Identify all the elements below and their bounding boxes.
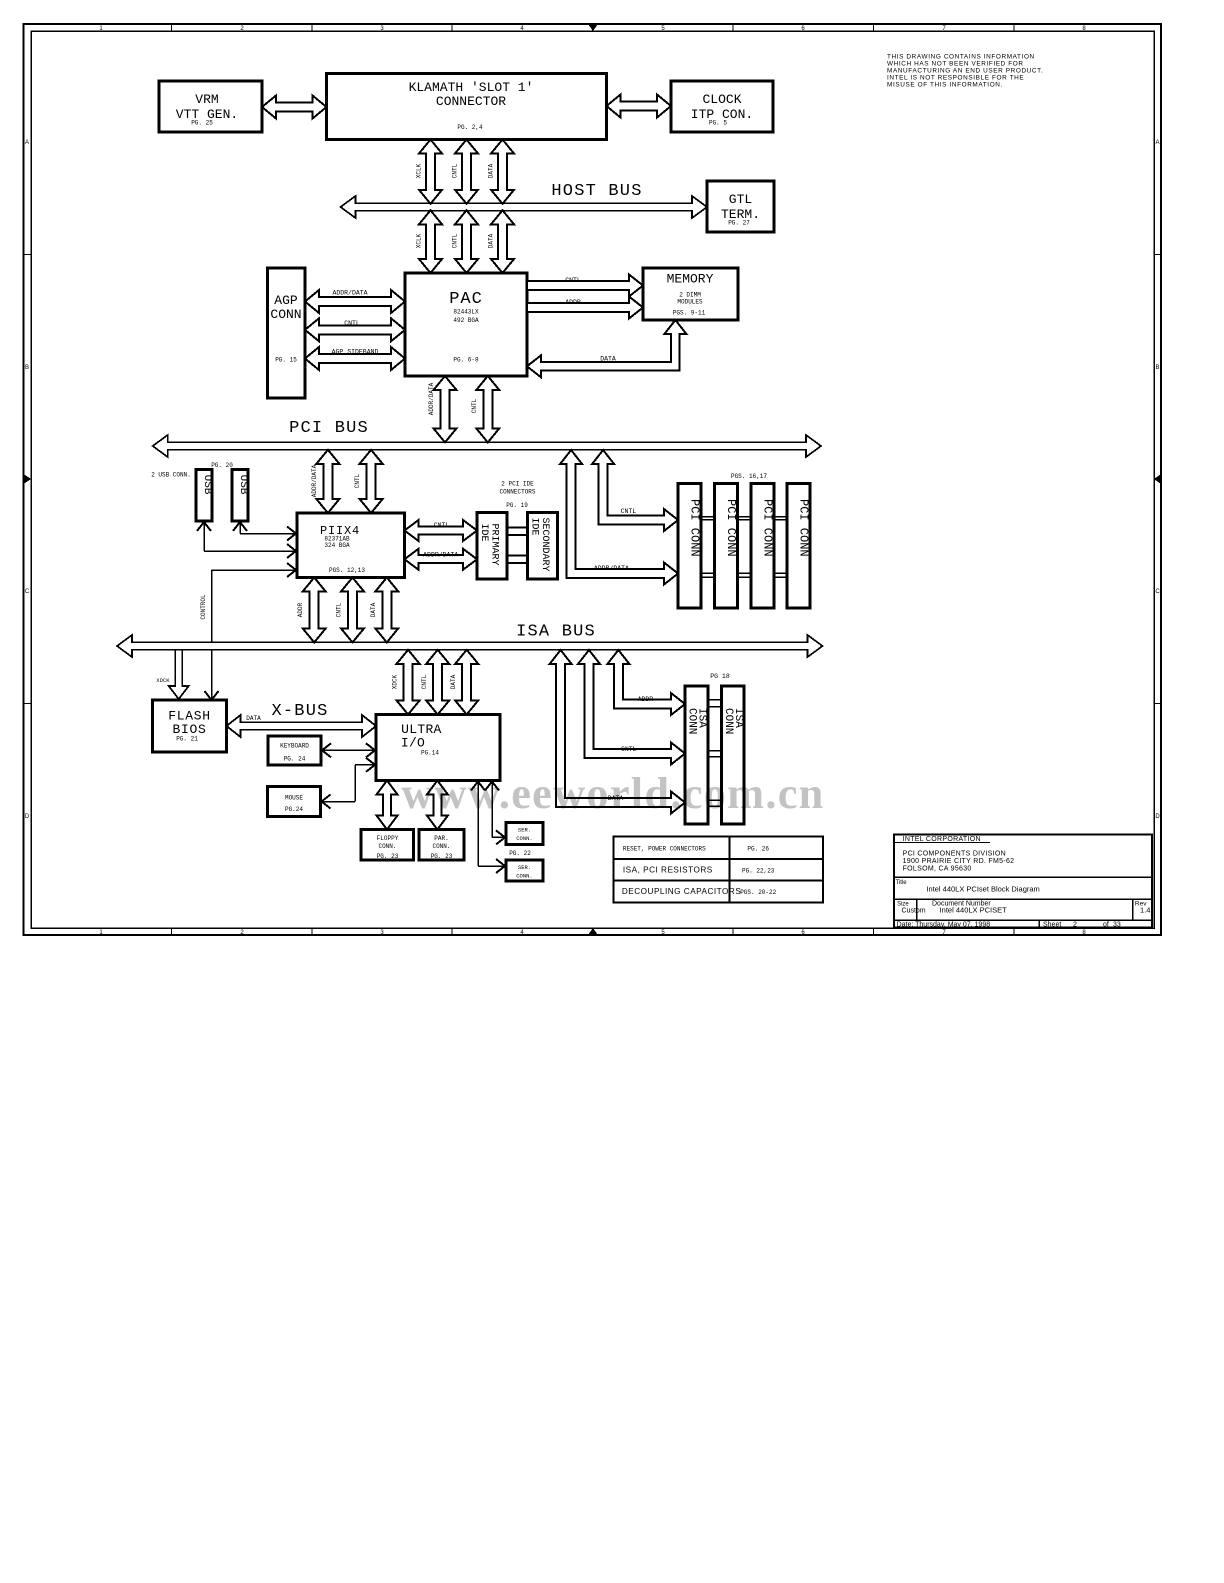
svg-text:AGP SIDEBAND: AGP SIDEBAND [332,349,379,356]
svg-text:CNTL: CNTL [421,674,428,689]
svg-text:CONNECTOR: CONNECTOR [436,94,506,109]
svg-text:1900 PRAIRIE CITY RD. FM5-62: 1900 PRAIRIE CITY RD. FM5-62 [903,858,1015,865]
wire XDCK isabus-ULTRA [397,650,420,715]
svg-text:PAR.: PAR. [434,835,448,842]
svg-text:PG. 26: PG. 26 [747,846,769,853]
svg-text:PG. 27: PG. 27 [728,220,750,227]
block PIIX4 82371AB [297,513,405,578]
svg-text:PRIMARY: PRIMARY [489,524,500,566]
wire CNTL hostbus-PAC [455,210,478,273]
svg-text:DECOUPLING CAPACITORS: DECOUPLING CAPACITORS [622,887,741,896]
svg-text:PG. 20: PG. 20 [211,462,233,469]
svg-text:CNTL: CNTL [621,508,637,515]
svg-text:C: C [25,589,30,595]
wire CONTROL PIIX4-FLASH [211,570,213,699]
wire CNTL AGP-PAC [305,318,405,341]
wire XDCK isabus-FLASH [169,650,189,699]
svg-text:CONN: CONN [722,708,734,734]
svg-text:ADDR: ADDR [638,696,654,703]
svg-text:PG. 5: PG. 5 [709,120,727,127]
connector PCI CONN 1 [678,484,701,609]
svg-text:PG. 2,4: PG. 2,4 [457,124,483,131]
svg-text:ISA BUS: ISA BUS [516,623,596,642]
wire CNTL KLAMATH-hostbus [455,140,478,204]
block GTL TERM [707,181,774,232]
svg-text:PAC: PAC [449,290,483,309]
svg-text:AGP: AGP [274,293,298,308]
svg-text:33: 33 [1113,922,1121,929]
block FLASH BIOS [153,700,227,752]
wire DATA X-BUS FLASH-ULTRA [227,715,377,737]
block KEYBOARD [268,736,321,765]
svg-text:C: C [1155,589,1160,595]
connector SECONDARY IDE [528,513,558,580]
wire CNTL PAC-MEMORY [527,275,643,297]
pci bus [153,435,821,457]
svg-text:CNTL: CNTL [452,163,459,178]
svg-text:ADDR/DATA: ADDR/DATA [423,551,458,558]
svg-text:ADDR/DATA: ADDR/DATA [594,565,629,572]
svg-text:CONN: CONN [686,708,698,734]
svg-text:1.4: 1.4 [1140,906,1150,915]
svg-text:A: A [1155,140,1159,146]
svg-text:www.eeworld.com.cn: www.eeworld.com.cn [401,769,824,818]
wire USB1-PIIX4 [203,521,205,551]
wire ULTRA-SER1 [491,781,493,838]
wire DATA hostbus-PAC [491,210,514,273]
svg-text:GTL: GTL [729,192,752,207]
svg-text:B: B [1155,365,1159,371]
svg-text:WHICH HAS NOT BEEN VERIFIED FO: WHICH HAS NOT BEEN VERIFIED FOR [887,61,1024,68]
svg-text:Title: Title [896,880,908,886]
wire IDE link upper [507,527,528,529]
wire ISA CONN link ADDR [708,699,722,701]
svg-text:Sheet: Sheet [1043,922,1061,929]
svg-text:XCLK: XCLK [416,233,423,248]
svg-text:Intel 440LX PCISET: Intel 440LX PCISET [940,906,1008,915]
svg-text:MOUSE: MOUSE [285,795,303,802]
wire CNTL pcibus-PIIX4 [360,450,383,513]
svg-text:PCI CONN: PCI CONN [724,499,738,557]
svg-text:FLOPPY: FLOPPY [377,835,399,842]
svg-text:PG. 6-8: PG. 6-8 [453,357,479,364]
svg-text:SER.: SER. [518,864,531,871]
svg-text:CLOCK: CLOCK [702,92,741,107]
svg-text:PCI BUS: PCI BUS [289,419,369,438]
block PAR CONN [419,830,464,861]
svg-text:PCI CONN: PCI CONN [797,499,811,557]
svg-text:THIS DRAWING CONTAINS INFORMAT: THIS DRAWING CONTAINS INFORMATION [887,54,1035,61]
svg-text:CONN.: CONN. [378,843,396,850]
wire ULTRA-FLOPPY [377,781,398,830]
svg-text:RESET, POWER CONNECTORS: RESET, POWER CONNECTORS [623,846,706,853]
svg-text:DATA: DATA [488,163,495,178]
svg-text:A: A [25,140,29,146]
wire DATA MEMORY-PAC [527,320,686,377]
block MEMORY [643,268,738,320]
wire ULTRA-KEYBOARD [321,749,375,751]
block MOUSE [268,787,321,817]
svg-text:PG.14: PG.14 [421,750,439,757]
svg-text:CNTL: CNTL [336,602,343,617]
svg-text:FOLSOM, CA 95630: FOLSOM, CA 95630 [903,865,972,872]
border zone ticks [170,24,172,31]
svg-text:B: B [25,365,29,371]
wire IDE link lower [507,555,528,557]
wire ADDR/DATA PAC-pcibus [434,376,457,442]
svg-text:Custom: Custom [902,908,926,915]
svg-text:PGS. 9-11: PGS. 9-11 [673,310,706,317]
svg-text:PG. 25: PG. 25 [191,120,213,127]
svg-text:of: of [1103,922,1109,929]
block VRM VTT GEN [159,81,262,132]
wire ISA CONN link DATA [708,799,722,801]
block FLOPPY CONN [361,830,414,861]
svg-text:82443LX: 82443LX [453,309,479,316]
svg-text:KEYBOARD: KEYBOARD [280,743,309,750]
reference table [614,837,824,903]
svg-text:PGS. 16,17: PGS. 16,17 [731,473,767,480]
svg-text:2 USB CONN.: 2 USB CONN. [151,472,191,479]
svg-text:D: D [25,814,30,820]
block AGP CONN [268,268,306,398]
block PAC 82443LX [405,273,527,376]
svg-text:DATA: DATA [370,602,377,617]
svg-text:KLAMATH 'SLOT 1': KLAMATH 'SLOT 1' [409,80,534,95]
svg-text:CNTL: CNTL [621,746,637,753]
svg-text:XCLK: XCLK [416,163,423,178]
svg-text:IDE: IDE [529,518,540,536]
svg-text:PCI COMPONENTS DIVISION: PCI COMPONENTS DIVISION [903,851,1006,858]
svg-text:2: 2 [1073,922,1077,929]
bus arrow KLAMATH-CLOCK [607,95,672,118]
svg-text:ISA, PCI RESISTORS: ISA, PCI RESISTORS [623,866,713,875]
svg-text:CNTL: CNTL [434,522,450,529]
svg-text:CNTL: CNTL [354,473,361,488]
svg-text:ADDR: ADDR [565,299,581,306]
svg-text:PG. 19: PG. 19 [506,502,528,509]
svg-text:I/O: I/O [401,736,425,751]
wire PCI CONN link [738,516,751,518]
svg-text:ADDR: ADDR [297,602,304,617]
bus arrow VRM-KLAMATH [262,96,327,119]
connector SER CONN 2 [506,860,543,881]
connector PCI CONN 2 [715,484,738,609]
connector USB 2 [232,470,248,522]
svg-text:USB: USB [201,475,213,495]
svg-text:IDE: IDE [478,524,489,542]
svg-text:324 BGA: 324 BGA [324,542,350,549]
connector PCI CONN 4 [787,484,810,609]
svg-text:PG 18: PG 18 [710,673,730,680]
title block [894,834,1152,927]
wire CNTL pcibus-PCICONN [592,450,678,531]
svg-text:DATA: DATA [450,674,457,689]
svg-text:VRM: VRM [195,92,218,107]
wire ADDR/DATA AGP-PAC [305,290,405,313]
svg-text:ADDR/DATA: ADDR/DATA [311,464,318,497]
svg-text:SECONDARY: SECONDARY [539,518,550,572]
wire ADDR/DATA PIIX4-IDE [405,549,478,570]
wire DATA isabus-ULTRA [455,650,478,715]
wire CNTL PIIX4-isabus [341,578,364,643]
svg-text:Date: Thursday, May 07, 1998: Date: Thursday, May 07, 1998 [897,922,991,929]
svg-text:2 PCI IDE: 2 PCI IDE [501,481,534,488]
svg-text:CNTL: CNTL [344,320,360,327]
isa bus [117,635,823,657]
svg-text:2 DIMM: 2 DIMM [679,292,701,299]
svg-text:PCI CONN: PCI CONN [760,499,774,557]
connector PRIMARY IDE [477,513,507,580]
connector SER CONN 1 [506,823,543,845]
border frame inner [31,31,1154,928]
wire DATA KLAMATH-hostbus [491,140,514,204]
svg-text:PG. 15: PG. 15 [275,357,297,364]
svg-text:Intel 440LX PCIset Block Diagr: Intel 440LX PCIset Block Diagram [926,884,1039,893]
wire CNTL isabus-ISACONN [578,650,685,765]
svg-text:D: D [1155,814,1160,820]
svg-text:CNTL: CNTL [471,398,478,413]
svg-text:SER.: SER. [518,827,531,834]
wire PCI CONN link [774,516,787,518]
svg-text:CNTL: CNTL [565,277,581,284]
svg-text:MEMORY: MEMORY [667,272,714,287]
block ULTRA I/O [376,715,500,781]
svg-text:PG. 22: PG. 22 [509,850,531,857]
wire ULTRA-PAR [427,781,448,830]
svg-text:CNTL: CNTL [452,233,459,248]
svg-text:MODULES: MODULES [677,299,703,306]
wire XCLK KLAMATH-hostbus [419,140,442,204]
svg-text:HOST BUS: HOST BUS [551,182,642,201]
wire PCI CONN link [701,516,715,518]
wire ULTRA-MOUSE [321,801,356,803]
wire CNTL PAC-pcibus [476,376,499,442]
block KLAMATH SLOT 1 connector [327,74,607,140]
svg-text:INTEL IS NOT RESPONSIBLE FOR T: INTEL IS NOT RESPONSIBLE FOR THE [887,75,1024,82]
wire ADDR/DATA pcibus-PCICONN [560,450,678,585]
svg-text:PCI CONN: PCI CONN [688,499,702,557]
svg-text:ADDR/DATA: ADDR/DATA [428,382,435,415]
svg-text:MISUSE OF THIS INFORMATION.: MISUSE OF THIS INFORMATION. [887,82,1003,89]
wire CNTL isabus-ULTRA [426,650,449,715]
connector PCI CONN 3 [751,484,774,609]
svg-text:PG.24: PG.24 [285,806,303,813]
svg-text:INTEL CORPORATION: INTEL CORPORATION [903,836,981,843]
wire USB2-PIIX4 [239,521,241,534]
svg-text:ADDR/DATA: ADDR/DATA [332,290,367,297]
svg-text:492 BGA: 492 BGA [453,317,479,324]
svg-text:PG. 23: PG. 23 [377,853,399,860]
wire ADDR PAC-MEMORY [527,297,643,319]
svg-text:XDCK: XDCK [392,674,399,689]
svg-text:PGS. 12,13: PGS. 12,13 [329,567,365,574]
connector ISA CONN 2 [722,686,745,824]
svg-text:MANUFACTURING AN END USER PROD: MANUFACTURING AN END USER PRODUCT. [887,68,1043,75]
svg-text:DATA: DATA [246,715,261,722]
wire ADDR/DATA pcibus-PIIX4 [316,450,339,513]
svg-text:CONN.: CONN. [432,843,450,850]
wire XCLK hostbus-PAC [419,210,442,273]
wire ADDR isabus-ISACONN [607,650,685,715]
svg-text:PG. 23: PG. 23 [431,853,453,860]
wire CNTL PIIX4-IDE [405,520,478,541]
svg-text:CONN: CONN [270,307,301,322]
svg-text:CONNECTORS: CONNECTORS [499,488,535,495]
svg-text:DATA: DATA [488,233,495,248]
wire DATA PIIX4-isabus [375,578,398,643]
wire AGP SIDEBAND AGP-PAC [305,347,405,370]
svg-text:CONN.: CONN. [516,873,533,880]
connector ISA CONN 1 [685,686,708,824]
border frame outer [24,24,1162,935]
connector USB 1 [196,470,212,522]
svg-text:PG. 22,23: PG. 22,23 [742,868,775,875]
svg-text:CONN.: CONN. [516,835,533,842]
svg-text:CONTROL: CONTROL [200,594,207,620]
wire ADDR PIIX4-isabus [303,578,326,643]
wire ULTRA-SER2 [477,781,479,867]
svg-text:X-BUS: X-BUS [271,702,328,721]
block CLOCK ITP CON [671,81,773,132]
wire ISA CONN link CNTL [708,750,722,752]
wire DATA isabus-ISACONN [550,650,685,814]
host bus [341,196,708,218]
svg-text:USB: USB [237,475,249,495]
svg-text:XDCK: XDCK [156,677,170,684]
svg-text:PGS. 20-22: PGS. 20-22 [740,889,776,896]
svg-text:DATA: DATA [600,356,616,363]
svg-text:PG. 21: PG. 21 [176,736,198,743]
svg-text:PG. 24: PG. 24 [284,756,306,763]
